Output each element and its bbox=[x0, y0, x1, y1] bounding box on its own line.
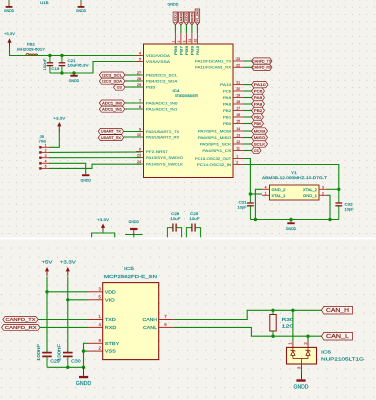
svg-text:PB0: PB0 bbox=[223, 122, 231, 126]
svg-text:VDD: VDD bbox=[105, 289, 117, 295]
global label MISO bbox=[252, 134, 268, 140]
svg-text:PB2: PB2 bbox=[223, 109, 231, 113]
svg-text:2: 2 bbox=[236, 161, 238, 165]
pin 8 STBY (IC5 left) bbox=[88, 338, 120, 347]
svg-text:PB8: PB8 bbox=[185, 46, 189, 55]
global label BOOT0 (vertical) bbox=[190, 12, 195, 25]
svg-text:PA5/SPI1_SCK: PA5/SPI1_SCK bbox=[200, 142, 232, 146]
wire MOSI bbox=[244, 130, 252, 132]
svg-text:PA10: PA10 bbox=[254, 82, 267, 87]
svg-text:RXD: RXD bbox=[105, 325, 117, 331]
pin 19 PA9 (IC4 right) bbox=[223, 94, 244, 100]
wire STBY to ground node bbox=[84, 343, 89, 367]
wire crystal ground rail bbox=[250, 219, 338, 221]
global label LED1 (vertical) bbox=[173, 12, 178, 25]
wire CANFD_TX to TXD bbox=[38, 319, 88, 321]
junction +5V / VDD bbox=[45, 290, 48, 293]
svg-text:PA12/FDCAN1_TX: PA12/FDCAN1_TX bbox=[195, 59, 232, 63]
svg-text:15: 15 bbox=[236, 120, 240, 124]
junction XTAL_1 / C31 bbox=[249, 192, 252, 195]
svg-text:ADC1_IN1: ADC1_IN1 bbox=[102, 108, 122, 112]
svg-text:+5V: +5V bbox=[42, 260, 54, 265]
wire FDCAN1_TX bbox=[244, 60, 252, 62]
global label PA8 bbox=[252, 101, 265, 107]
svg-text:2: 2 bbox=[177, 41, 181, 43]
pin 16 PB1 (IC4 right) bbox=[223, 113, 244, 119]
svg-text:PF2-NRST: PF2-NRST bbox=[146, 150, 169, 154]
svg-text:MH2029-601Y: MH2029-601Y bbox=[17, 48, 46, 52]
wire top pin PB9 bbox=[191, 25, 193, 33]
svg-text:32: 32 bbox=[193, 39, 197, 43]
svg-text:PB7: PB7 bbox=[179, 46, 183, 55]
global label LED2 (vertical) bbox=[179, 12, 184, 25]
svg-text:STBY: STBY bbox=[105, 341, 120, 347]
pin 3 XTAL_2 (Y1) bbox=[303, 185, 327, 192]
svg-text:3: 3 bbox=[45, 154, 47, 158]
svg-text:CANFD_TX: CANFD_TX bbox=[252, 59, 272, 63]
wire J5 pin2 to NRST bbox=[49, 151, 141, 153]
pin 18 PA8 (IC4 right) bbox=[223, 100, 244, 106]
wire VSS to ground node bbox=[84, 350, 89, 352]
ground stub crystal bbox=[290, 220, 292, 223]
junction IC6 pin1 / CANH bbox=[291, 309, 294, 312]
pin 17 PB2 (IC4 right) bbox=[223, 107, 244, 113]
svg-text:120: 120 bbox=[282, 324, 294, 330]
pin 1 PB6 (IC4 top) bbox=[171, 33, 178, 55]
pin 7 CANH (IC5 right) bbox=[143, 314, 174, 323]
pin 2 (IC6) bbox=[303, 341, 308, 347]
wire PB2 bbox=[244, 110, 252, 112]
pin 23 PA12/FDCAN1_TX (IC4 right) bbox=[195, 57, 244, 63]
wire caps to VSS bbox=[50, 62, 141, 74]
svg-text:1: 1 bbox=[236, 155, 238, 159]
pin 9 PA2/USART2_TX (IC4 left) bbox=[136, 128, 180, 134]
svg-text:14: 14 bbox=[236, 127, 240, 131]
svg-text:2: 2 bbox=[45, 149, 47, 153]
power +3.3V bbox=[4, 31, 15, 47]
global label PC6 bbox=[252, 88, 265, 94]
svg-text:10uF: 10uF bbox=[170, 217, 181, 221]
ground GNDD (IC5) bbox=[76, 367, 92, 387]
svg-text:1: 1 bbox=[265, 191, 267, 195]
global label SCLK bbox=[252, 141, 268, 147]
global label I2C3_SDA bbox=[99, 78, 125, 84]
pin 21 PA10 (IC4 right) bbox=[220, 81, 243, 87]
svg-text:PA3/USART2_RX: PA3/USART2_RX bbox=[146, 135, 180, 139]
wire J5 pin3 to SWDIO bbox=[49, 157, 141, 159]
svg-text:USART_RX: USART_RX bbox=[101, 136, 122, 140]
junction GND_2 / rail bbox=[254, 218, 257, 221]
svg-text:C30: C30 bbox=[71, 358, 81, 363]
svg-text:BOOT0: BOOT0 bbox=[190, 12, 194, 23]
svg-text:1: 1 bbox=[171, 41, 175, 43]
svg-text:PA15: PA15 bbox=[196, 46, 200, 55]
junction IC6 pin2 / CANL bbox=[306, 335, 309, 338]
svg-text:LED1: LED1 bbox=[174, 12, 178, 23]
wire +5V to VDD bbox=[47, 291, 88, 293]
wire ADC1_IN1 to pin 8 bbox=[125, 108, 141, 110]
svg-text:PC15-OSC32_OUT: PC15-OSC32_OUT bbox=[195, 157, 232, 161]
svg-text:10uF/6.3V: 10uF/6.3V bbox=[68, 63, 90, 67]
svg-text:J5: J5 bbox=[40, 135, 45, 139]
wire CANH to IC6 pin 1 bbox=[292, 310, 294, 341]
svg-text:PB1: PB1 bbox=[254, 114, 262, 119]
wire top pin PA15 bbox=[196, 25, 198, 33]
global label PA9 bbox=[252, 94, 265, 100]
svg-text:3: 3 bbox=[322, 185, 324, 189]
svg-text:CANFD_RX: CANFD_RX bbox=[252, 66, 272, 70]
wire +5V rail down bbox=[46, 277, 48, 353]
svg-text:GNDD: GNDD bbox=[76, 8, 86, 13]
wire CANH bbox=[174, 310, 322, 319]
pin 12 PA5/SPI1_SCK (IC4 right) bbox=[200, 140, 244, 146]
global label I2C3_SCL bbox=[99, 72, 125, 78]
wire GND_2 down bbox=[255, 189, 262, 219]
wire CS to pin 29 bbox=[125, 86, 141, 88]
svg-text:CANFD_RX: CANFD_RX bbox=[5, 325, 37, 330]
svg-text:GNDD: GNDD bbox=[76, 381, 92, 387]
wire +3.3V rail down bbox=[67, 277, 69, 353]
IC5 CAN transceiver MCP2562FD-E_SN body bbox=[103, 283, 159, 360]
pin 2 PC14-OSC32_IN (IC4 right) bbox=[197, 161, 244, 167]
svg-text:XTAL_1: XTAL_1 bbox=[272, 194, 286, 198]
svg-text:MISO: MISO bbox=[254, 135, 266, 140]
pin 14 PA7/SPI1_MOSI (IC4 right) bbox=[198, 127, 244, 133]
svg-text:12: 12 bbox=[236, 140, 240, 144]
wire SCLK bbox=[244, 143, 252, 145]
svg-text:10pF: 10pF bbox=[345, 207, 355, 211]
wire top pin PB8 bbox=[185, 25, 187, 33]
global label LED3 (vertical) bbox=[184, 12, 189, 25]
svg-text:USART_TX: USART_TX bbox=[101, 130, 122, 134]
global label USART_RX bbox=[98, 135, 124, 141]
pin 2 PB7 (IC4 top) bbox=[177, 33, 184, 55]
global label CS (left) bbox=[114, 84, 126, 90]
svg-text:GNDD: GNDD bbox=[80, 178, 91, 183]
svg-text:GNDD: GNDD bbox=[286, 226, 297, 231]
svg-text:PA6/SPI1_MISO: PA6/SPI1_MISO bbox=[198, 136, 232, 140]
global label PA10 bbox=[252, 81, 269, 87]
svg-text:CS: CS bbox=[117, 86, 123, 90]
diode IC6 NUP2105LT1G dual TVS body bbox=[287, 347, 317, 364]
svg-text:1: 1 bbox=[45, 144, 47, 148]
global label ADC1_IN1 bbox=[99, 106, 125, 112]
svg-text:23: 23 bbox=[236, 57, 240, 61]
op-amp U? -- microcontroller IC4 STM32G0B1K8T6 body bbox=[144, 44, 234, 178]
svg-text:100nF: 100nF bbox=[43, 59, 47, 71]
global label CAN_H bbox=[322, 306, 353, 314]
wire +3.3V to VIO bbox=[68, 299, 88, 301]
svg-text:GNDD: GNDD bbox=[294, 384, 309, 390]
svg-text:VSS: VSS bbox=[105, 349, 116, 355]
svg-text:16: 16 bbox=[236, 113, 240, 117]
svg-text:31: 31 bbox=[188, 39, 192, 43]
pin 31 PB9 (IC4 top) bbox=[188, 33, 195, 55]
svg-text:PA2/USART2_TX: PA2/USART2_TX bbox=[146, 130, 180, 134]
pin 27 PB3/I2C3_SCL (IC4 left) bbox=[136, 71, 177, 77]
pin 20 PC6 (IC4 right) bbox=[223, 87, 244, 93]
pin 11 PA4/SPI1_CS (IC4 right) bbox=[202, 147, 243, 153]
svg-text:I2C3_SDA: I2C3_SDA bbox=[102, 80, 123, 84]
svg-text:MOSI: MOSI bbox=[254, 128, 266, 133]
svg-text:2: 2 bbox=[322, 191, 324, 195]
pin 3 PB8 (IC4 top) bbox=[182, 33, 189, 55]
svg-text:PA10: PA10 bbox=[220, 83, 231, 87]
global label CANFD_TX (IC4) bbox=[252, 58, 273, 64]
svg-text:LED2: LED2 bbox=[179, 12, 183, 23]
svg-text:XTAL_2: XTAL_2 bbox=[303, 188, 317, 192]
wire CANL to IC6 pin 2 bbox=[307, 336, 309, 341]
svg-text:+3.3V: +3.3V bbox=[4, 31, 15, 36]
junction VDD rail / C19 bbox=[48, 54, 51, 57]
svg-text:100nF: 100nF bbox=[36, 344, 41, 361]
power +3.3V (CAN) bbox=[60, 260, 77, 276]
svg-text:GNDD: GNDD bbox=[129, 219, 140, 224]
svg-text:23: 23 bbox=[137, 154, 141, 158]
junction R30 / CANH bbox=[271, 309, 274, 312]
pin 32 PA15 (IC4 top) bbox=[193, 33, 200, 55]
svg-text:11: 11 bbox=[236, 147, 240, 151]
wire top pin PB6 bbox=[174, 25, 176, 33]
svg-text:10uF: 10uF bbox=[189, 217, 200, 221]
capacitor C29 10uF bbox=[186, 212, 200, 237]
wire top pin PB7 bbox=[180, 25, 182, 33]
svg-text:22: 22 bbox=[236, 63, 240, 67]
junction +3.3V / VIO bbox=[66, 298, 69, 301]
svg-text:C28: C28 bbox=[171, 212, 179, 216]
wire GND_1 down bbox=[327, 195, 331, 219]
wire PC6 bbox=[244, 90, 252, 92]
junction C30 / ground bbox=[66, 366, 69, 369]
svg-text:GND_1: GND_1 bbox=[303, 194, 317, 198]
svg-text:U1B: U1B bbox=[40, 0, 49, 5]
pin 22 PA11/FDCAN1_RX (IC4 right) bbox=[195, 63, 244, 69]
svg-text:PC6: PC6 bbox=[254, 88, 263, 93]
global label CAN_L bbox=[322, 332, 353, 340]
capacitor C30 100nF (bottom) bbox=[57, 344, 82, 368]
global label MOSI bbox=[252, 128, 268, 134]
svg-text:4: 4 bbox=[45, 160, 47, 164]
svg-text:PB0: PB0 bbox=[254, 121, 262, 126]
wire PA9 bbox=[244, 97, 252, 99]
junction XTAL_2 / C32 bbox=[337, 188, 340, 191]
global label USART_TX bbox=[98, 128, 124, 134]
svg-text:ABM3B-12.000MHZ-10-D7G-T: ABM3B-12.000MHZ-10-D7G-T bbox=[262, 176, 328, 180]
svg-text:100nF: 100nF bbox=[57, 344, 62, 361]
resistor R30 120 bbox=[270, 310, 294, 336]
capacitor C21 10uF/6.3V bbox=[59, 56, 90, 74]
junction R30 / CANL bbox=[271, 335, 274, 338]
svg-text:C29: C29 bbox=[190, 212, 198, 216]
global label CANFD_TX (bottom) bbox=[3, 317, 38, 323]
svg-text:GND_2: GND_2 bbox=[272, 188, 286, 192]
svg-text:C31: C31 bbox=[239, 200, 247, 204]
pin 6 PF2-NRST (IC4 left) bbox=[136, 148, 169, 154]
wire PB1 bbox=[244, 116, 252, 118]
wire MISO bbox=[244, 137, 252, 139]
connector J5 JTAG bbox=[39, 135, 49, 170]
pin 2 GND_1 (Y1) bbox=[303, 191, 327, 198]
capacitor C32 10pF bbox=[335, 189, 354, 219]
wire OSC32_IN to XTAL_2 bbox=[244, 165, 339, 190]
svg-text:SCLK: SCLK bbox=[254, 141, 266, 146]
pin 5 VIO (IC5 left) bbox=[88, 294, 115, 303]
svg-text:VSS/VSSA: VSS/VSSA bbox=[146, 60, 171, 64]
sheet divider bbox=[0, 237, 376, 239]
junction ground node bbox=[82, 366, 85, 369]
svg-text:MCP2562FD-E_SN: MCP2562FD-E_SN bbox=[104, 274, 158, 280]
svg-text:PA9: PA9 bbox=[223, 96, 231, 100]
svg-text:3: 3 bbox=[182, 41, 186, 43]
pin 4 GND_2 (Y1) bbox=[262, 185, 286, 192]
svg-text:TXD: TXD bbox=[105, 317, 117, 323]
ground GNDD (inverted stub) bbox=[129, 219, 140, 235]
power +3.3V (JTAG) bbox=[53, 116, 65, 131]
svg-text:GNDD: GNDD bbox=[4, 8, 14, 13]
svg-text:10pF: 10pF bbox=[238, 205, 248, 209]
wire ADC1_IN0 to pin 7 bbox=[125, 102, 141, 104]
pin 7 PA0/ADC1_IN0 (IC4 left) bbox=[136, 99, 177, 105]
junction +3.3V stub bbox=[102, 231, 104, 234]
svg-text:18: 18 bbox=[236, 100, 240, 104]
pin 15 PB0 (IC4 right) bbox=[223, 120, 244, 126]
svg-text:+3.3V: +3.3V bbox=[97, 217, 109, 222]
svg-text:21: 21 bbox=[236, 81, 240, 85]
wire CANFD_RX to RXD bbox=[40, 326, 88, 328]
wire J5 pin1 to +3.3V bbox=[49, 130, 59, 147]
wire cap grounds bbox=[47, 366, 84, 368]
svg-text:SYS_SWO: SYS_SWO bbox=[196, 10, 200, 24]
ground GNDD top-left bbox=[4, 0, 14, 13]
svg-text:I2C3_SCL: I2C3_SCL bbox=[102, 73, 122, 77]
junction ground stub / rail bbox=[289, 218, 292, 221]
wire GNDD stub down bbox=[133, 235, 135, 238]
svg-text:C32: C32 bbox=[345, 203, 353, 207]
svg-text:PA14/SYS_SWCLK: PA14/SYS_SWCLK bbox=[146, 162, 184, 166]
svg-text:13: 13 bbox=[236, 134, 240, 138]
capacitor C19 100nF bbox=[43, 56, 60, 74]
svg-text:24: 24 bbox=[137, 160, 141, 164]
svg-text:5: 5 bbox=[45, 165, 47, 169]
wire +3.3V stub bbox=[92, 233, 115, 237]
junction VDD rail / C21 bbox=[60, 54, 63, 57]
svg-text:20: 20 bbox=[236, 87, 240, 91]
wire OSC32_OUT to XTAL_1 bbox=[244, 159, 251, 195]
svg-text:4: 4 bbox=[265, 185, 267, 189]
pin 3 VDD (IC5 left) bbox=[88, 286, 116, 295]
svg-text:+3.3V: +3.3V bbox=[53, 116, 65, 121]
pin 4 RXD (IC5 left) bbox=[88, 322, 117, 331]
svg-text:LED3: LED3 bbox=[185, 12, 189, 23]
global label CS bbox=[252, 147, 262, 153]
pin 5 VSS/VSSA (IC4 left) bbox=[136, 58, 171, 64]
wire FDCAN1_RX bbox=[244, 66, 252, 68]
svg-text:VIO: VIO bbox=[105, 297, 115, 303]
pin 2 VSS (IC5 left) bbox=[88, 346, 116, 355]
ground GNDD (IC6) bbox=[294, 374, 309, 391]
capacitor C29 100nF (bottom) bbox=[36, 344, 61, 368]
svg-text:PB2: PB2 bbox=[254, 108, 263, 113]
svg-text:C19: C19 bbox=[51, 67, 59, 71]
global label CANFD_RX (IC4) bbox=[252, 64, 273, 70]
pin 1 (IC6) bbox=[288, 341, 293, 347]
global label PB1 bbox=[252, 114, 264, 120]
svg-text:PB1: PB1 bbox=[223, 115, 231, 119]
svg-text:PC6: PC6 bbox=[223, 89, 231, 93]
svg-text:PB9: PB9 bbox=[190, 46, 194, 55]
svg-text:PA4/SPI1_CS: PA4/SPI1_CS bbox=[202, 149, 232, 153]
capacitor C31 10pF bbox=[238, 194, 254, 220]
svg-text:PA13/SYS_SWDIO: PA13/SYS_SWDIO bbox=[146, 156, 183, 160]
wire J5 pin5 to SWCLK bbox=[49, 164, 141, 168]
svg-text:PB5: PB5 bbox=[146, 85, 155, 89]
pin 8 PA1/ADC1_IN1 (IC4 left) bbox=[136, 105, 177, 111]
svg-text:PB6: PB6 bbox=[174, 46, 178, 55]
wire to XTAL_1 pin bbox=[250, 193, 262, 195]
global label CANFD_RX (bottom) bbox=[2, 325, 41, 331]
svg-text:CS: CS bbox=[254, 148, 259, 153]
wire PA8 bbox=[244, 103, 252, 105]
pin 29 PB5 (IC4 left) bbox=[136, 83, 155, 89]
svg-text:PA8: PA8 bbox=[254, 101, 263, 106]
global label PB0 bbox=[252, 120, 264, 126]
svg-text:FB2: FB2 bbox=[27, 43, 35, 47]
power +3.3V (stub) bbox=[97, 217, 109, 232]
pin 1 XTAL_1 (Y1) bbox=[262, 191, 286, 198]
wire PB0 bbox=[244, 123, 252, 125]
pin 10 PA3/USART2_RX (IC4 left) bbox=[136, 133, 180, 139]
wire CANL bbox=[174, 327, 322, 336]
wire I2C3_SCL to pin 27 bbox=[125, 74, 141, 76]
pin 6 CANL (IC5 right) bbox=[143, 322, 174, 331]
svg-text:IC6: IC6 bbox=[321, 350, 331, 356]
pin 28 PB4/I2C3_SDA (IC4 left) bbox=[136, 77, 178, 83]
capacitor C28 10uF bbox=[167, 212, 181, 237]
pin 4 VDD/VDDA (IC4 left) bbox=[136, 52, 171, 58]
svg-text:CANFD_TX: CANFD_TX bbox=[6, 317, 36, 322]
global label SYS_SWO (vertical) bbox=[195, 9, 200, 25]
svg-text:GNDD: GNDD bbox=[69, 78, 80, 83]
svg-text:CANH: CANH bbox=[143, 317, 158, 323]
svg-text:+3.3V: +3.3V bbox=[60, 260, 77, 265]
svg-text:5: 5 bbox=[139, 58, 141, 62]
svg-text:CANL: CANL bbox=[143, 325, 157, 331]
svg-text:PA9: PA9 bbox=[254, 95, 263, 100]
svg-text:PA8: PA8 bbox=[223, 102, 231, 106]
junction VSS bbox=[82, 349, 85, 352]
svg-text:PC14-OSC32_IN: PC14-OSC32_IN bbox=[197, 163, 232, 167]
svg-text:PA11/FDCAN1_RX: PA11/FDCAN1_RX bbox=[195, 66, 232, 70]
pin 23 PA13/SYS_SWDIO (IC4 left) bbox=[136, 154, 183, 160]
wire XTAL_2 to C32 node bbox=[327, 188, 339, 190]
svg-text:CAN_L: CAN_L bbox=[326, 334, 349, 340]
svg-text:Y1: Y1 bbox=[291, 171, 297, 175]
svg-text:17: 17 bbox=[236, 107, 240, 111]
global label PB2 bbox=[252, 107, 265, 113]
svg-text:IC5: IC5 bbox=[124, 266, 134, 272]
pin 24 PA14/SYS_SWCLK (IC4 left) bbox=[136, 160, 184, 166]
ground GNDD (JTAG) bbox=[80, 174, 91, 183]
svg-text:GNDD: GNDD bbox=[168, 1, 179, 6]
svg-text:PB3/I2C3_SCL: PB3/I2C3_SCL bbox=[146, 73, 178, 77]
svg-text:IC4: IC4 bbox=[173, 89, 180, 93]
ground GNDD (crystal) bbox=[286, 222, 297, 231]
svg-text:4: 4 bbox=[139, 52, 141, 56]
svg-text:STM32G0B1K8T6: STM32G0B1K8T6 bbox=[175, 94, 198, 98]
wire PA10 bbox=[244, 84, 252, 86]
svg-text:PA7/SPI1_MOSI: PA7/SPI1_MOSI bbox=[198, 129, 231, 133]
svg-text:VDD/VDDA: VDD/VDDA bbox=[146, 54, 171, 58]
